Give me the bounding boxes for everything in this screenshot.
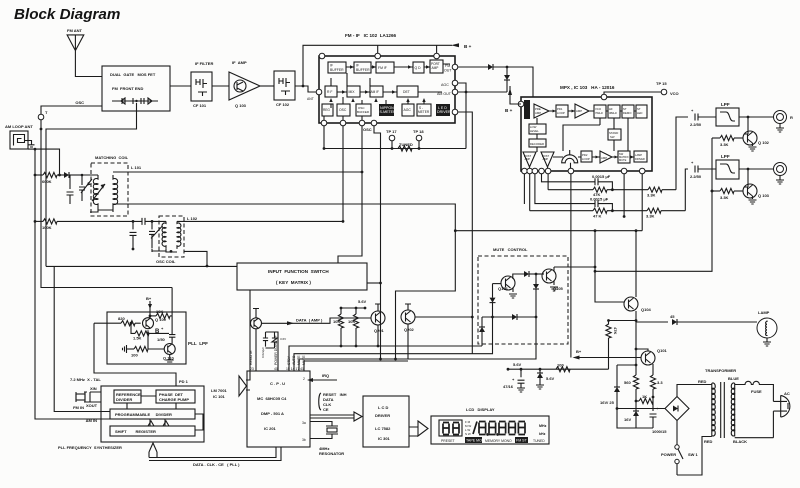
- svg-text:B +: B +: [464, 44, 472, 49]
- svg-text:MUTE: MUTE: [619, 158, 627, 162]
- svg-text:SHIFT REGISTER: SHIFT REGISTER: [115, 429, 156, 434]
- test point TP17: [386, 129, 397, 150]
- vertical diode to AM OUT line: [504, 67, 510, 92]
- 3.3K resistor ch1: [647, 117, 688, 198]
- svg-text:AMP: AMP: [535, 111, 541, 115]
- svg-text:TUNED: TUNED: [533, 439, 545, 443]
- svg-text:3a: 3a: [302, 421, 306, 425]
- wire AM ant bottom to RF row: [28, 149, 60, 175]
- svg-text:LED: LED: [637, 111, 642, 115]
- svg-text:DECODER: DECODER: [530, 142, 544, 146]
- vertical pin labels above CPU: [249, 335, 306, 365]
- svg-text:TUNED: TUNED: [399, 142, 413, 147]
- shift register box: [110, 426, 195, 436]
- svg-text:AM LOOP ANT: AM LOOP ANT: [5, 124, 33, 129]
- svg-text:LAMP: LAMP: [758, 310, 770, 315]
- svg-text:IC 101: IC 101: [213, 394, 226, 399]
- 47K resistor vertical: [606, 319, 636, 369]
- svg-text:3.6V: 3.6V: [280, 337, 286, 341]
- svg-text:AMP: AMP: [576, 109, 582, 113]
- svg-text:RED: RED: [698, 379, 707, 384]
- composite input dark block: [524, 100, 530, 119]
- B+ label mid: [155, 326, 164, 335]
- svg-text:CF 102: CF 102: [276, 102, 290, 107]
- PD2 loop block: [581, 151, 592, 162]
- svg-text:DET: DET: [403, 90, 410, 94]
- svg-text:FM FRONT END: FM FRONT END: [112, 86, 143, 91]
- svg-text:PLL LPF: PLL LPF: [188, 341, 208, 346]
- LPF1 box: [716, 102, 739, 126]
- svg-text:CHARGE PUMP: CHARGE PUMP: [159, 397, 189, 402]
- svg-text:DUAL GATE MOS FET: DUAL GATE MOS FET: [110, 72, 156, 77]
- svg-text:SW: SW: [610, 135, 615, 139]
- Q104 emitter rail down: [635, 311, 637, 375]
- L102 output wire right to IC102 osc pin: [177, 220, 343, 222]
- svg-text:Q101: Q101: [657, 348, 668, 353]
- SW matrix mute block: [618, 151, 630, 163]
- MIX block: [347, 86, 360, 97]
- transistor Q104: [624, 297, 652, 312]
- PD1 loop block: [556, 105, 568, 117]
- svg-text:2: 2: [303, 377, 305, 381]
- svg-text:AC: AC: [784, 391, 790, 396]
- svg-text:IRQ: IRQ: [322, 373, 329, 378]
- svg-text:SW 1: SW 1: [688, 452, 699, 457]
- svg-text:23: 23: [250, 367, 254, 371]
- svg-text:R: R: [790, 115, 793, 120]
- svg-text:16V/ 25: 16V/ 25: [600, 400, 615, 405]
- horizontal diode bottom: [482, 314, 537, 320]
- wire transformer secondary bottom to switch: [677, 437, 712, 476]
- crystal X-tal symbol: [76, 392, 101, 402]
- osc coil bottom line to input function switch: [184, 251, 207, 266]
- varactor diodes inside front end: [112, 98, 158, 104]
- osc coil bottoms: [152, 249, 177, 252]
- MPX audio mute pin wire down to mute drive line: [641, 174, 643, 231]
- svg-text:45: 45: [670, 314, 675, 319]
- transistor Q109: [143, 317, 167, 329]
- svg-text:Q 109: Q 109: [155, 317, 167, 322]
- svg-text:1000/15: 1000/15: [652, 429, 667, 434]
- svg-text:76kHz: 76kHz: [595, 111, 604, 115]
- transistor Q110: [163, 344, 175, 361]
- IC103 top pin: [601, 94, 607, 100]
- diode between Q106 Q105: [524, 271, 544, 277]
- OSC coil dashed box: [156, 216, 184, 264]
- 1K resistor: [635, 394, 655, 404]
- svg-text:LCD DISPLAY: LCD DISPLAY: [466, 407, 495, 412]
- ground rail power: [617, 420, 653, 428]
- svg-text:Q 103: Q 103: [235, 103, 247, 108]
- svg-text:Q201: Q201: [374, 328, 385, 333]
- svg-text:BUFFER: BUFFER: [356, 68, 370, 72]
- svg-text:AMP: AMP: [543, 157, 549, 161]
- IC102 pins bottom: [321, 120, 327, 126]
- svg-text:IF: IF: [356, 64, 359, 68]
- wire input box right side down: [367, 282, 381, 284]
- svg-text:LAMP: LAMP: [635, 153, 642, 157]
- arrow driver to display: [409, 421, 428, 436]
- svg-text:TAPE MON: TAPE MON: [466, 439, 485, 443]
- ceramic resonator: [310, 422, 344, 457]
- tunable core arrow: [92, 184, 105, 201]
- IC102 outer box: [319, 56, 455, 123]
- ST LED block: [636, 105, 647, 118]
- svg-text:METER: METER: [418, 110, 430, 114]
- 1/50 capacitor: [157, 316, 175, 344]
- 10K resistor: [149, 309, 173, 319]
- svg-text:S-METER: S-METER: [380, 110, 397, 114]
- svg-text:0.0015 μF: 0.0015 μF: [592, 174, 611, 179]
- capacitor 2.2/50 ch1: [690, 108, 716, 127]
- wire: FM osc down left edge to PLL FM IN: [41, 120, 172, 288]
- matching coil dashed box: [91, 155, 129, 216]
- key line from varactors joining input switch: [46, 265, 237, 267]
- IC103 internal wires: [537, 111, 636, 157]
- RESET INH DATA CLK CE: [319, 392, 347, 412]
- wire AM OUT to vertical diode: [458, 91, 507, 93]
- B+ arrow to MPX supply: [573, 349, 642, 360]
- bus C mute: [299, 317, 536, 371]
- internal connection wires IC102: [324, 73, 424, 121]
- lamp: [757, 310, 777, 346]
- transistor Q202: [401, 304, 415, 332]
- test point TP on osc line: [38, 110, 48, 120]
- wires IC102 middle row: [337, 91, 442, 93]
- svg-text:L 102: L 102: [187, 216, 198, 221]
- frequency digits: [473, 422, 525, 436]
- svg-text:L 101: L 101: [131, 165, 142, 170]
- power switch SW1: [661, 445, 699, 475]
- output jack 1: [774, 111, 794, 133]
- 47K resistor ch2: [530, 174, 647, 219]
- diode to lamp: [636, 314, 757, 325]
- svg-text:38kHz: 38kHz: [609, 111, 618, 115]
- coil bottoms: [90, 208, 113, 212]
- 560 resistor: [624, 375, 639, 401]
- IC103 outer box: [521, 97, 652, 171]
- MPX B+ supply pin long wire: [570, 174, 572, 358]
- capacitor 1000/15: [650, 397, 668, 434]
- svg-text:BLACK: BLACK: [733, 439, 747, 444]
- svg-text:OUT: OUT: [444, 69, 452, 73]
- programmable divider box: [110, 409, 195, 419]
- svg-text:DATA . CLK . CE ( PLL ): DATA . CLK . CE ( PLL ): [193, 462, 240, 467]
- 0.022uF cap + 3.6V zener at power pin: [261, 332, 286, 371]
- svg-text:3.3K: 3.3K: [646, 214, 655, 219]
- transistor Q105: [542, 267, 564, 291]
- svg-text:820: 820: [118, 316, 125, 321]
- svg-text:B+: B+: [146, 296, 152, 301]
- amp triangle 3: [600, 151, 612, 163]
- svg-text:LOOP: LOOP: [582, 157, 590, 161]
- svg-text:TP 15: TP 15: [656, 81, 667, 86]
- mute drive line from MPX pin to mute box and Q104: [455, 230, 642, 232]
- AGC block: [402, 104, 414, 116]
- osc coil secondary L102: [177, 221, 181, 249]
- svg-text:FM ST: FM ST: [516, 439, 528, 443]
- NIPPON S-METER dark block: [379, 104, 396, 116]
- wire input box bottom to CPU key arrow: [246, 290, 250, 390]
- B+ feed at top: [146, 296, 152, 318]
- 100 resistor with ground: [123, 345, 165, 358]
- svg-text:FM: FM: [445, 64, 450, 68]
- svg-text:IC 301: IC 301: [378, 436, 391, 441]
- svg-text:FM IF: FM IF: [378, 66, 387, 70]
- svg-text:AM IN: AM IN: [86, 418, 97, 423]
- B+ arrow feeding IC102 top rail: [451, 43, 472, 49]
- svg-text:2.2/50: 2.2/50: [690, 174, 702, 179]
- svg-text:BUFFER: BUFFER: [357, 110, 370, 114]
- svg-text:AGC: AGC: [404, 108, 412, 112]
- wire AM signal down left edge to PLL AM IN: [35, 149, 110, 419]
- svg-text:47 K: 47 K: [593, 214, 602, 219]
- svg-text:DATA ( AMP ): DATA ( AMP ): [296, 318, 323, 323]
- DATA CLK CE (PLL) double wire from CPU: [149, 447, 281, 461]
- output jack 2: [774, 163, 787, 185]
- capacitor to ground on 100K line: [130, 220, 137, 250]
- bus D power: [304, 361, 408, 371]
- wire IF amp to CF102: [260, 85, 274, 87]
- svg-text:IF: IF: [330, 64, 333, 68]
- HF 38k block: [608, 105, 620, 118]
- decoder block: [529, 139, 546, 147]
- band indicators: [465, 420, 471, 436]
- L101 output top wire to IC102 mixer pin: [113, 171, 362, 173]
- svg-text:MEMORY MONO: MEMORY MONO: [485, 439, 512, 443]
- svg-text:10K: 10K: [333, 319, 340, 324]
- phase detector crescent: [562, 150, 578, 171]
- svg-text:560: 560: [624, 380, 631, 385]
- svg-text:Q D: Q D: [415, 66, 422, 70]
- resistor 820: [94, 316, 141, 326]
- svg-text:Q202: Q202: [404, 327, 415, 332]
- 0.0015uF cap ch2: [535, 174, 613, 211]
- svg-text:FM - IF IC 102 LA1266: FM - IF IC 102 LA1266: [345, 33, 397, 38]
- svg-text:DRIVER: DRIVER: [437, 110, 451, 114]
- svg-text:VCO: VCO: [670, 91, 679, 96]
- diode in AM input: [64, 172, 83, 178]
- svg-text:REG: REG: [323, 108, 330, 112]
- svg-text:0.0015 μF: 0.0015 μF: [590, 197, 609, 202]
- IF BUFFER 2 block: [354, 62, 371, 73]
- IF filter CF102: [274, 71, 295, 107]
- svg-text:1/50: 1/50: [157, 337, 166, 342]
- wire LPF2 to jack2: [739, 168, 775, 170]
- svg-text:PRESET: PRESET: [441, 439, 455, 443]
- Q102 transistor: [743, 117, 770, 151]
- svg-text:1K: 1K: [642, 394, 647, 399]
- wire mute input from line: [454, 290, 456, 292]
- svg-text:3.3K: 3.3K: [720, 142, 729, 147]
- wire: front end varactor node down then left then down to key line: [46, 103, 137, 266]
- svg-text:10K: 10K: [348, 319, 355, 324]
- osc coil primary: [162, 221, 166, 249]
- pre amp triangle: [534, 104, 549, 118]
- IC102 pins right: [452, 64, 458, 70]
- svg-text:XIN: XIN: [90, 386, 97, 391]
- svg-text:OSC: OSC: [339, 108, 347, 112]
- wires bridge to regulators: [617, 408, 665, 410]
- svg-text:100: 100: [131, 353, 138, 358]
- signal flow arrowheads IC102: [329, 65, 430, 102]
- svg-text:L C D: L C D: [378, 405, 388, 410]
- IF amp Q103 triangle: [229, 60, 260, 108]
- transistor Q203 data amp: [251, 309, 262, 372]
- 100 resistor to B+: [556, 363, 570, 372]
- svg-text:OSC: OSC: [75, 100, 84, 105]
- 47K resistor ch1: [548, 174, 648, 197]
- svg-text:AMP: AMP: [601, 156, 607, 160]
- IC102 bottom pin wires down: [342, 126, 344, 221]
- DET block: [397, 86, 418, 97]
- svg-text:AM IF: AM IF: [371, 90, 380, 94]
- svg-text:LC 7582: LC 7582: [375, 426, 391, 431]
- OSC block: [337, 104, 350, 116]
- wire Q202 collector right to mute feed: [415, 316, 472, 318]
- 0.0015uF cap ch1: [542, 174, 613, 190]
- svg-text:kHz: kHz: [539, 432, 546, 436]
- TUNED line with TP17 TP18: [323, 126, 466, 150]
- internal pll wires: [127, 396, 203, 430]
- FM front end box: [102, 66, 170, 111]
- test point TP15 / VCO: [604, 81, 679, 97]
- IC103 bottom pins: [522, 168, 528, 174]
- stand sw block: [608, 129, 621, 140]
- zener 16V/25: [600, 364, 637, 420]
- svg-text:5.6V: 5.6V: [546, 376, 555, 381]
- svg-text:REMOTE: REMOTE: [249, 350, 253, 365]
- svg-text:( KEY MATRIX ): ( KEY MATRIX ): [276, 280, 311, 285]
- svg-text:100K: 100K: [42, 225, 52, 230]
- svg-text:IC 201: IC 201: [264, 426, 277, 431]
- svg-text:DEMO: DEMO: [623, 111, 632, 115]
- svg-text:DRIVER: DRIVER: [375, 413, 390, 418]
- low level detector block: [529, 124, 546, 134]
- wire front end to CF101: [170, 85, 229, 87]
- bottom status labels: [441, 437, 545, 443]
- varactor tune line up from 10K: [171, 288, 173, 316]
- svg-text:47K: 47K: [613, 327, 618, 334]
- svg-text:7.2 MHz X - TAL: 7.2 MHz X - TAL: [70, 377, 101, 382]
- AM loop antenna: [5, 124, 35, 149]
- capacitor 2.2/50 ch2: [690, 160, 716, 179]
- svg-text:S W: S W: [465, 432, 471, 436]
- IC103 left pin: [518, 101, 524, 107]
- open arrow into CPU left: [239, 376, 247, 396]
- svg-text:CF 101: CF 101: [193, 103, 207, 108]
- transistor Q101: [636, 348, 668, 375]
- AM IF block: [370, 86, 383, 97]
- L101 bottom long wire to mute area: [113, 204, 455, 359]
- svg-text:3.3: 3.3: [657, 380, 663, 385]
- svg-text:MATCHING COIL: MATCHING COIL: [95, 155, 129, 160]
- svg-text:47/16: 47/16: [503, 384, 514, 389]
- B+ arrow left of MPX: [505, 86, 521, 113]
- FM antenna: [67, 28, 102, 77]
- resistor 10K a: [333, 308, 344, 346]
- wire plug bottom to switch return: [735, 437, 774, 439]
- LPF2 box: [716, 154, 739, 179]
- svg-text:DRIVER: DRIVER: [635, 157, 645, 161]
- svg-text:Q 103: Q 103: [758, 193, 770, 198]
- series capacitor to osc coil: [142, 218, 166, 225]
- AC plug: [773, 391, 789, 438]
- MPX pin stub: [623, 174, 625, 217]
- svg-text:Q104: Q104: [641, 307, 652, 312]
- open arrows into shift register: [148, 421, 169, 426]
- svg-text:MUTE CONTROL: MUTE CONTROL: [493, 247, 528, 252]
- svg-text:LPF: LPF: [721, 102, 730, 107]
- wire LED driver pin right then down: [458, 112, 472, 354]
- svg-text:LPF: LPF: [721, 154, 730, 159]
- svg-text:40: 40: [274, 367, 278, 371]
- svg-text:AM OUT: AM OUT: [437, 92, 452, 96]
- svg-text:TRANSFORMER: TRANSFORMER: [705, 368, 736, 373]
- svg-text:600K: 600K: [42, 179, 52, 184]
- Q103 transistor: [743, 169, 770, 204]
- PLL box: [101, 386, 204, 442]
- svg-text:5.6V: 5.6V: [358, 299, 367, 304]
- IF BUFFER block: [328, 62, 346, 73]
- svg-text:B +: B +: [505, 108, 513, 113]
- svg-text:3b: 3b: [302, 438, 306, 442]
- 3.3K resistor ch2: [646, 169, 688, 219]
- Q110 emitter ground: [169, 355, 171, 361]
- capacitor to ground: [67, 175, 74, 204]
- wire Q105 collector to Q104 base: [554, 267, 624, 302]
- DATA (AMP) wire to Q201: [261, 318, 371, 326]
- test point TP18: [413, 129, 424, 150]
- phase det charge pump box: [156, 390, 195, 403]
- wires IC102 top row: [346, 64, 450, 67]
- 3.3K resistor at Q102 base: [712, 135, 743, 147]
- varactor diode: [149, 220, 162, 248]
- svg-text:IF AMP: IF AMP: [232, 60, 247, 65]
- wires inside mute box: [493, 283, 502, 285]
- wire FM OUT pin right with diode: [458, 66, 488, 68]
- svg-text:B+: B+: [576, 349, 582, 354]
- post amp output stubs: [530, 167, 548, 171]
- post amp R triangle: [541, 152, 554, 167]
- svg-text:PD 1: PD 1: [179, 379, 189, 384]
- svg-text:Block Diagram: Block Diagram: [14, 6, 120, 23]
- svg-text:AGC: AGC: [441, 83, 449, 87]
- svg-text:2.2/50: 2.2/50: [690, 122, 702, 127]
- wire to ANT pin of IC102: [303, 86, 316, 92]
- svg-text:BLUE: BLUE: [728, 376, 739, 381]
- wire LPF1 to jack1: [739, 116, 775, 118]
- amp triangle 2: [575, 104, 589, 118]
- svg-text:MPX , IC 103 HA - 12016: MPX , IC 103 HA - 12016: [560, 85, 615, 90]
- 3.3 resistor: [650, 375, 663, 397]
- svg-text:LM 7001: LM 7001: [211, 388, 228, 393]
- svg-text:LEVEL: LEVEL: [530, 129, 539, 133]
- svg-text:PLL FREQUENCY SYNTHESIZER: PLL FREQUENCY SYNTHESIZER: [58, 445, 122, 450]
- resistor 600K: [34, 172, 64, 184]
- VCO 76k block: [594, 105, 606, 118]
- wires Q201/Q202 emitters down to bus: [378, 324, 408, 359]
- svg-text:Q106: Q106: [498, 286, 509, 291]
- svg-text:FUSE: FUSE: [751, 389, 762, 394]
- FM IF block: [376, 62, 394, 73]
- vertical feed wire for tone mute down right: [595, 138, 712, 271]
- IC102 pins top: [319, 53, 325, 59]
- TRANSFORMER: [698, 368, 747, 444]
- post amp L triangle: [523, 152, 536, 167]
- 1.5K feedback resistor: [131, 323, 149, 340]
- Q D block: [413, 62, 424, 73]
